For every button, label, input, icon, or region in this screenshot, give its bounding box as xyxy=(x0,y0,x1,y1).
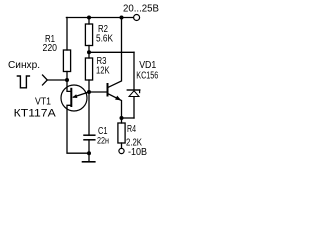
diode VD1 cathode bar xyxy=(127,89,140,91)
svg-text:22н: 22н xyxy=(97,136,109,146)
diode VD1 triangle xyxy=(129,91,139,97)
wire VT2 base lead xyxy=(89,91,108,93)
svg-text:KC156: KC156 xyxy=(136,71,158,82)
transistor VT1 circle xyxy=(61,85,87,111)
node R4 top junction dot xyxy=(120,116,124,120)
wire VT2 collector xyxy=(108,18,122,88)
node sync junction dot xyxy=(65,78,69,82)
wire R2 to R3 xyxy=(88,46,90,59)
wire R4 bottom lead xyxy=(121,143,123,148)
wire base-1 lead of VT1 down to bottom rail xyxy=(67,105,89,153)
node emitter junction dot xyxy=(87,90,91,94)
svg-text:20...25В: 20...25В xyxy=(123,4,159,15)
ground xyxy=(88,153,90,161)
resistor R3 xyxy=(85,58,92,80)
transistor VT2 base bar xyxy=(107,84,109,96)
wire zener branch horizontal xyxy=(89,51,134,53)
wire left column from rail to R1 xyxy=(66,18,68,51)
wire VT2 emitter xyxy=(108,94,122,118)
wire base-2 lead of VT1 xyxy=(67,80,71,91)
svg-text:Синхр.: Синхр. xyxy=(8,60,40,71)
svg-text:220: 220 xyxy=(43,43,58,54)
resistor R1 xyxy=(63,50,70,72)
node collector rail dot xyxy=(120,16,124,20)
transistor VT1 base bar xyxy=(70,89,72,106)
svg-text:VD1: VD1 xyxy=(139,60,156,71)
wire C1 bottom lead xyxy=(88,140,90,153)
wire top rail xyxy=(66,17,133,19)
svg-text:12K: 12K xyxy=(96,66,110,77)
svg-text:5.6K: 5.6K xyxy=(96,34,113,45)
wire zener branch vertical xyxy=(133,52,135,90)
connector chevron sync input xyxy=(43,75,48,85)
wire sync input xyxy=(47,79,67,81)
wire R1 bottom to sync node xyxy=(66,72,68,81)
wire R4 top lead xyxy=(121,118,123,123)
wire rail to R2 xyxy=(88,18,90,25)
node R2 top dot xyxy=(87,16,91,20)
diode VD1 zener tick xyxy=(139,90,141,93)
svg-text:R4: R4 xyxy=(127,124,136,135)
wire VD1 anode down xyxy=(133,97,135,118)
node R2/R3 junction dot xyxy=(87,50,91,54)
svg-text:VT1: VT1 xyxy=(35,97,51,108)
terminal -10V xyxy=(119,148,124,153)
capacitor C1 plate top xyxy=(84,134,95,136)
terminal +20..25V xyxy=(134,15,140,21)
resistor R4 xyxy=(118,123,125,143)
wire R3 bottom to emitter node xyxy=(88,80,90,92)
pulse waveform symbol xyxy=(17,76,29,88)
wire emitter node down to C1 xyxy=(88,92,90,135)
svg-text:КТ117А: КТ117А xyxy=(14,108,57,120)
capacitor C1 plate bottom xyxy=(84,139,95,141)
wire bottom jog to R4 node xyxy=(122,117,135,119)
svg-text:-10В: -10В xyxy=(128,147,147,158)
transistor VT1 emitter arrow xyxy=(72,94,77,98)
transistor VT2 emitter arrow xyxy=(115,96,121,101)
resistor R2 xyxy=(85,24,92,46)
transistor VT1 emitter wire xyxy=(74,92,90,97)
node ground junction dot xyxy=(87,151,91,155)
